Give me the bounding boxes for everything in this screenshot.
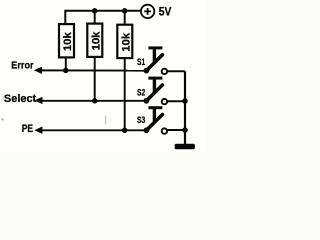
power +5V symbol [141,5,154,18]
resistor R2 [87,24,102,57]
resistor R3 [117,25,132,58]
wire PE line with arrow [34,127,146,134]
svg-text:S2: S2 [137,88,146,98]
wire S2 to right rail [167,100,185,102]
switch S3 [144,106,168,134]
wire R1 bottom to Error line [65,57,67,70]
scan speck left lower [2,118,4,121]
node junction S3/rail [182,127,188,133]
ground [175,144,195,149]
node junction R2 top [92,8,98,14]
svg-text:S1: S1 [137,57,146,67]
svg-text:10k: 10k [121,32,133,52]
wire S1 to right rail [167,70,185,72]
wire top +5V rail [65,11,141,24]
wire R2 top stub [94,11,96,24]
switch S1 [144,46,168,74]
node junction R2/Select [92,98,98,104]
svg-text:PE: PE [22,123,34,135]
wire R2 bottom to Select line [94,57,96,101]
switch S2 [144,77,168,105]
wire Error line with arrow [34,67,147,74]
svg-text:Select: Select [4,93,37,105]
scan speck left edge [2,97,4,99]
node junction R3/PE [122,128,128,134]
svg-text:S3: S3 [137,115,146,125]
resistor R1 [59,24,74,57]
svg-text:10k: 10k [62,32,74,52]
node junction R3 top [122,8,128,14]
wire right ground rail [184,71,186,144]
svg-text:10k: 10k [91,31,103,51]
svg-text:Error: Error [11,60,34,72]
wire R3 top stub [124,11,126,25]
scan mark mid faint dash [105,116,107,125]
node junction S2/rail [182,98,188,104]
wire S3 to right rail [167,129,185,131]
svg-text:5V: 5V [159,6,172,19]
wire Select line with arrow [34,97,146,104]
wire R3 bottom to PE line [124,58,126,130]
node junction R1/Error [63,68,69,74]
